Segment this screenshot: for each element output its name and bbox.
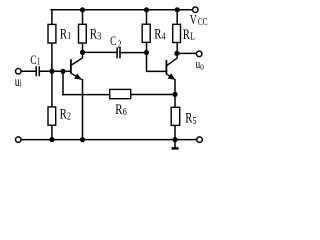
- resistor R1: [48, 24, 56, 43]
- wire RL top leg: [176, 10, 178, 24]
- wire RL bottom leg to output node: [176, 43, 178, 54]
- node top rail / R4: [144, 7, 149, 12]
- wire feedback tap from input node down: [62, 71, 64, 94]
- node B R4 / C2 / T2 base: [144, 50, 149, 55]
- wire T1 collector node to C2: [83, 51, 117, 53]
- wire R4 bottom leg to node B: [146, 42, 148, 52]
- wire feedback tap to R6 left: [63, 94, 110, 96]
- capacitor C1: [36, 66, 39, 76]
- node T2 emitter / R6 / R5: [172, 92, 177, 97]
- wire R1 top leg: [51, 10, 53, 25]
- node bottom rail / R2: [49, 137, 54, 142]
- resistor R6: [110, 89, 131, 98]
- svg-text:VCC: VCC: [190, 13, 208, 28]
- resistor R4: [142, 24, 150, 42]
- wire R2 bottom leg: [51, 125, 53, 139]
- wire T1 emitter down to bottom rail: [82, 80, 84, 140]
- wire top supply rail: [51, 9, 192, 11]
- node input / feedback tap: [60, 69, 65, 74]
- wire R4 top leg: [146, 10, 148, 24]
- svg-text:C1: C1: [30, 53, 40, 67]
- transistor T2: [166, 53, 177, 79]
- wire input terminal to C1: [21, 70, 36, 72]
- wire R6 right to T2 emitter node: [131, 94, 175, 96]
- terminal VCC: [193, 7, 199, 13]
- wire node B down and to T2 base: [147, 53, 166, 72]
- resistor R2: [48, 107, 56, 125]
- wire R1 bottom leg to input node: [51, 43, 53, 71]
- terminal input ui: [16, 69, 22, 75]
- resistor R3: [79, 24, 87, 43]
- node bottom rail / T1 emitter: [80, 137, 85, 142]
- capacitor C2: [117, 47, 120, 58]
- terminal bottom right: [197, 137, 203, 143]
- node T1 collector / R3 / C2: [80, 50, 85, 55]
- node top rail / RL: [175, 7, 180, 12]
- wire T2 emitter down to R5: [174, 80, 176, 108]
- wire R5 bottom leg: [174, 125, 176, 139]
- wire R2 top leg: [51, 71, 53, 107]
- wire C2 to node B: [120, 52, 147, 54]
- terminal output uo: [196, 51, 202, 57]
- node top rail / R3: [80, 7, 85, 12]
- wire output node to output terminal: [177, 52, 196, 54]
- ground: [172, 140, 179, 149]
- node bottom rail / R5 / ground: [172, 137, 177, 142]
- wire bottom rail: [21, 139, 196, 141]
- terminal bottom left: [16, 137, 22, 143]
- resistor RL: [173, 24, 181, 42]
- wire R3 bottom leg to T1 collector node: [82, 43, 84, 52]
- transistor T1: [71, 52, 83, 79]
- node input / R1 / R2: [49, 69, 54, 74]
- node output RL / T2 collector: [174, 51, 179, 56]
- wire C1 to T1 base: [39, 70, 70, 72]
- wire R3 top leg: [82, 10, 84, 24]
- resistor R5: [171, 107, 180, 125]
- svg-text:uo: uo: [196, 58, 205, 72]
